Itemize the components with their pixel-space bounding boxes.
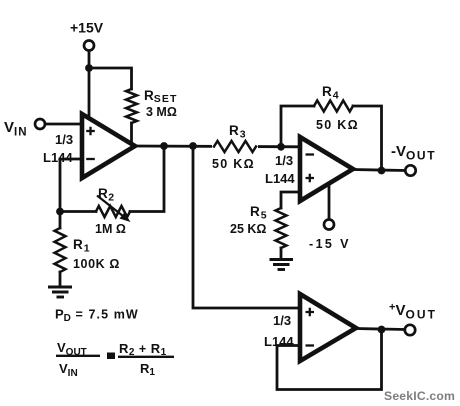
R4 feedback loop wires (281, 106, 382, 171)
wire feedback node to R2 left (60, 210, 96, 213)
junction dot U3 output (378, 326, 386, 334)
svg-text:3 MΩ: 3 MΩ (146, 105, 177, 119)
wire U2 to -15V terminal (328, 183, 331, 219)
wire U1 output bus to U2 inverting input (135, 145, 300, 149)
ground symbol (R1) (48, 287, 72, 297)
U3 feedback wire output to inverting input (277, 330, 382, 390)
wire +15V node to RSET top (89, 68, 132, 89)
svg-text:SeekIC.com: SeekIC.com (384, 389, 455, 403)
+15V terminal (84, 41, 94, 51)
svg-text:L144: L144 (265, 171, 295, 186)
wire VIN to U1 noninverting input (45, 123, 82, 126)
resistor R1 (59, 212, 62, 229)
svg-text:R2 + R1: R2 + R1 (119, 341, 167, 358)
-15V terminal (324, 220, 334, 230)
junction dot +15V node (85, 64, 93, 72)
resistor R2 (variable) (96, 206, 130, 217)
junction dot output node B (189, 142, 197, 150)
svg-text:L144: L144 (43, 150, 73, 165)
wire +15V terminal down to op-amp U1 top (88, 51, 91, 119)
resistor R3 (212, 139, 258, 154)
svg-text:100K Ω: 100K Ω (73, 257, 120, 271)
VIN terminal (35, 119, 45, 129)
junction dot output node A (160, 142, 168, 150)
junction dot R4 left node (277, 143, 285, 151)
svg-text:1/3: 1/3 (273, 313, 291, 328)
svg-text:-15 V: -15 V (309, 237, 351, 251)
gain formula VOUT/VIN = (R2+R1)/R1 (56, 340, 174, 379)
resistor RSET (126, 89, 137, 123)
wire node B down to U3 input (193, 146, 300, 308)
junction dot feedback node (56, 208, 64, 216)
svg-text:1M Ω: 1M Ω (95, 222, 126, 236)
wire U2 output (353, 170, 405, 171)
junction dot U2 output (378, 167, 386, 175)
svg-text:1/3: 1/3 (55, 132, 73, 147)
wire U2 noninverting input to R5 (281, 192, 300, 208)
wire RSET bottom to U1 output node (130, 123, 133, 145)
op-amp U3 (1/3 L144) (300, 294, 356, 361)
wire U1 inverting input to feedback node (60, 159, 82, 211)
ground symbol (R5) (270, 260, 294, 270)
-VOUT terminal (405, 165, 415, 175)
R2 wiper arrow (97, 196, 123, 217)
resistor R5 (276, 208, 287, 248)
svg-text:50 KΩ: 50 KΩ (316, 118, 359, 132)
+VOUT terminal (405, 325, 415, 335)
svg-text:1/3: 1/3 (275, 153, 293, 168)
wire R2 right to U1 output leg (130, 146, 164, 212)
op-amp U2 (1/3 L144) (300, 137, 353, 201)
svg-text:+15V: +15V (70, 20, 104, 36)
op-amp U1 (1/3 L144) (82, 114, 135, 178)
svg-text:50 KΩ: 50 KΩ (212, 157, 255, 171)
wire U3 output (356, 329, 404, 330)
resistor R4 (314, 101, 353, 112)
svg-text:25 KΩ: 25 KΩ (230, 222, 266, 236)
